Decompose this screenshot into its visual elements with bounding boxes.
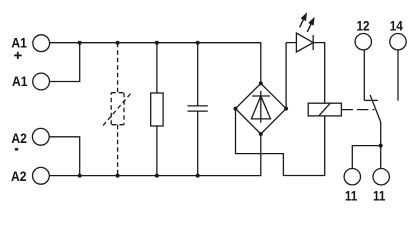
bridge rectifier diamond — [236, 83, 287, 134]
svg-text:A1: A1 — [11, 35, 27, 51]
terminal 14 — [390, 34, 406, 50]
terminal A1 (second) — [33, 73, 50, 90]
wire: bottom rail from A2 to bridge bottom — [49, 134, 260, 176]
minus mark — [15, 148, 18, 151]
relay coil K — [308, 103, 341, 116]
wire: common down from arm — [380, 122, 382, 146]
dashed actuation link coil to contact — [341, 109, 374, 111]
svg-text:11: 11 — [373, 187, 385, 203]
wire: branch to 11 terminals — [352, 146, 380, 169]
svg-text:A2: A2 — [11, 130, 27, 146]
capacitor C — [197, 43, 199, 106]
wire: coil return to bridge left corner — [236, 109, 325, 176]
svg-text:11: 11 — [345, 187, 357, 203]
wire: top rail from A1 to bridge top — [50, 43, 261, 84]
wire: A1 second terminal up to rail — [50, 43, 80, 82]
LED diode — [296, 33, 313, 52]
svg-text:12: 12 — [356, 18, 369, 34]
wire: terminal 14 down (NO) — [397, 50, 399, 101]
terminal A2 (third) — [32, 128, 49, 145]
terminal 11 (left) — [344, 169, 360, 185]
svg-text:A2: A2 — [11, 168, 27, 184]
terminal A1 (top) — [33, 35, 50, 52]
wire: A2 third terminal down to bottom rail — [49, 137, 79, 176]
LED arrows — [297, 11, 317, 33]
terminal 12 — [355, 34, 371, 50]
wire: bridge right corner up to LED — [285, 43, 287, 109]
svg-text:14: 14 — [390, 18, 404, 34]
bridge inner diode — [260, 91, 262, 123]
varistor branch (dashed leads) — [117, 43, 119, 176]
varistor RU (dashed box with diagonal) — [103, 92, 132, 126]
wire: LED cathode to coil top — [313, 43, 325, 104]
resistor R — [156, 43, 158, 93]
switch arm — [370, 95, 381, 122]
svg-text:A1: A1 — [12, 73, 28, 89]
wire: LED anode lead — [286, 42, 296, 44]
wire: terminal 12 down to NC contact — [363, 50, 365, 101]
terminal A2 (bottom) — [33, 167, 50, 184]
terminal 11 (right) — [373, 169, 389, 185]
NC contact seat — [364, 99, 378, 101]
plus mark — [14, 52, 22, 59]
